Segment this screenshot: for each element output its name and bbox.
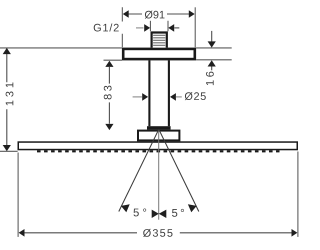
- spray arrow left: [121, 204, 130, 212]
- dim 131 ref line bottom: [0, 150, 18, 152]
- dim O355 arrow left: [19, 229, 25, 237]
- dim 83 line: [108, 67, 110, 124]
- nozzle dashes: [37, 150, 280, 152]
- shower head plate: [18, 142, 297, 150]
- label 131: [6, 83, 14, 106]
- thread hatch: [153, 35, 165, 45]
- dim 16 arrow down: [211, 31, 213, 42]
- dim 16 arrow up: [208, 60, 216, 66]
- dim O91 arrow left: [123, 10, 129, 18]
- pipe: [149, 60, 169, 126]
- dim O25 leader left: [133, 96, 142, 98]
- dim 131 arrow down: [3, 145, 11, 151]
- dim O91 line: [128, 13, 189, 15]
- dim 131 arrow up: [3, 48, 11, 54]
- spray centerline: [158, 130, 160, 220]
- spray line right: [159, 129, 199, 211]
- G1/2 ext right: [167, 21, 169, 31]
- label O91: [145, 11, 165, 19]
- G1/2 arrow right: [168, 24, 174, 32]
- dim 131 line: [6, 54, 8, 145]
- label O355: [143, 229, 172, 237]
- label G1/2: [94, 24, 119, 32]
- flange: [147, 126, 171, 129]
- dim O355 line: [24, 232, 292, 234]
- connector box: [138, 131, 179, 141]
- thread G1/2 body: [152, 33, 167, 48]
- dim O355 arrow right: [292, 229, 298, 237]
- dim 16 ref line: [196, 59, 232, 61]
- dim O91 ext left: [121, 7, 123, 47]
- dim 83 arrow up: [105, 61, 113, 67]
- dim O355 ext right: [297, 152, 299, 237]
- dim 83 arrow down: [105, 124, 113, 130]
- G1/2 ext left: [149, 21, 151, 31]
- G1/2 arrow left: [136, 27, 144, 29]
- label 5 deg right: [172, 209, 184, 217]
- label O25: [185, 92, 206, 100]
- label 83: [104, 86, 112, 100]
- dim O355 ext left: [17, 153, 19, 237]
- spray arrow right: [188, 204, 197, 212]
- dim O91 ext right: [194, 7, 196, 47]
- label 5 deg left: [134, 208, 147, 216]
- dim 83 ref line: [104, 59, 123, 61]
- angle arrows bowtie: [152, 210, 159, 218]
- ceiling line: [0, 47, 232, 49]
- dim O25 leader right: [170, 93, 176, 101]
- dim O91 arrow right: [189, 10, 195, 18]
- spray line left: [119, 129, 159, 211]
- mounting plate: [123, 49, 195, 59]
- label 16: [206, 72, 214, 86]
